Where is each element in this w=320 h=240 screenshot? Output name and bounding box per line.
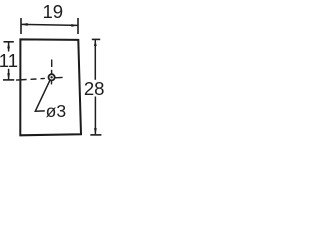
dimension 28: up arrowhead (94, 40, 97, 46)
dimension 19: right extension line (77, 18, 79, 34)
hole outer circle (49, 74, 55, 80)
dimension 28: top tick (92, 38, 100, 40)
dimension 11: top tick (4, 41, 14, 43)
leader line to hole (35, 80, 50, 111)
svg-text:11: 11 (0, 50, 18, 71)
hole center dot (50, 76, 52, 78)
dimension 11: dimension line upper segment (8, 42, 10, 51)
dimension 28: down arrowhead (94, 128, 97, 134)
hole horizontal centerline (16, 77, 63, 80)
plate outline (rectangle) (20, 39, 81, 135)
dimension 19: dimension line (21, 24, 77, 25)
dimension 28: dimension line upper segment (94, 40, 96, 80)
dimension 11: dimension line lower segment (8, 69, 10, 80)
svg-text:19: 19 (42, 1, 63, 22)
dimension 11: up arrowhead (7, 42, 10, 48)
dimension 11: down arrowhead (7, 73, 10, 79)
dimension 28: bottom tick (90, 134, 101, 136)
dimension 19: left extension line (20, 18, 22, 34)
dimension 19: left arrowhead (21, 23, 27, 26)
dimension 28: dimension line lower segment (94, 97, 96, 135)
dimension 11: bottom tick (3, 79, 14, 81)
dimension 19: right arrowhead (71, 24, 77, 27)
svg-text:28: 28 (84, 78, 105, 99)
hole vertical centerline (51, 60, 53, 85)
svg-text:ø3: ø3 (46, 101, 67, 121)
